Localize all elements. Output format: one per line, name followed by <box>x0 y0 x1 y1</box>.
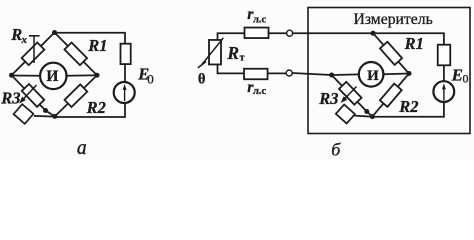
svg-text:R2: R2 <box>398 97 418 116</box>
svg-text:И: И <box>367 68 379 84</box>
svg-text:т: т <box>240 53 245 64</box>
svg-text:а: а <box>77 138 87 159</box>
svg-text:x: x <box>21 34 28 46</box>
svg-text:л.с: л.с <box>253 86 267 97</box>
svg-text:Измеритель: Измеритель <box>354 11 433 28</box>
svg-text:R: R <box>10 25 22 44</box>
svg-text:R: R <box>226 43 239 63</box>
svg-text:0: 0 <box>147 71 154 86</box>
svg-text:R3: R3 <box>318 89 338 108</box>
svg-text:R3: R3 <box>0 88 20 107</box>
svg-text:л.с: л.с <box>253 15 267 26</box>
svg-text:И: И <box>46 68 58 85</box>
svg-text:R1: R1 <box>404 34 424 53</box>
svg-text:R2: R2 <box>86 98 106 117</box>
svg-text:б: б <box>331 139 341 159</box>
svg-text:θ: θ <box>198 71 206 87</box>
svg-text:R1: R1 <box>87 36 107 55</box>
svg-text:0: 0 <box>463 71 469 85</box>
svg-text:E: E <box>451 65 463 84</box>
